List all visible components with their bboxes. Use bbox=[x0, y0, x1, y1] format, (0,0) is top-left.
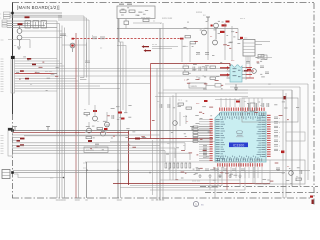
resistor R213 bbox=[210, 66, 216, 68]
wire CN401 pin1 bbox=[13, 134, 161, 136]
resistor R110 in box bbox=[120, 10, 126, 12]
wire from box pin2 down bbox=[125, 19, 127, 22]
resistor bottom R361 bbox=[169, 163, 171, 168]
wire red H138 bbox=[129, 138, 214, 140]
wire IC301 top feed3 bbox=[234, 98, 236, 107]
resistor R310 bbox=[178, 103, 184, 105]
wire CN401 pin8 bbox=[13, 152, 191, 154]
wire IC301 bottom feed7 bbox=[248, 167, 250, 178]
wire bus V6 bbox=[86, 18, 88, 78]
IC301 bottom pin numbers (red) bbox=[217, 163, 262, 166]
capacitor right C345 bbox=[274, 140, 278, 142]
wire CN401 pin7 bbox=[13, 150, 166, 152]
frame left border lower (dash-dot) bbox=[12, 114, 14, 198]
wire corner H84 bbox=[225, 83, 308, 85]
connector CN401 body bbox=[8, 128, 13, 156]
wire IC301 left feed13 bbox=[199, 146, 210, 148]
connector CN501 body bbox=[2, 170, 10, 179]
capacitor pre-IC C321 bbox=[203, 148, 207, 149]
arrow net left (dark red) bbox=[142, 45, 152, 52]
box L-MUTE bbox=[189, 83, 206, 88]
capacitor C104 bbox=[85, 61, 90, 68]
wire H141 bbox=[110, 141, 215, 143]
wire Q302 top bbox=[106, 112, 108, 122]
ground IC201 bbox=[234, 84, 238, 90]
label specks pre-IC cluster bbox=[166, 101, 213, 158]
wire IC301 top feed8 bbox=[257, 98, 259, 107]
wire ladder to IC pin5 bbox=[198, 140, 213, 142]
wire L-MUTE out bbox=[206, 85, 215, 87]
IC301 left pin ticks bbox=[216, 120, 220, 161]
power flag +9V bbox=[203, 15, 210, 21]
wire CN301 pin12 bbox=[15, 85, 100, 87]
wire audio L (dark red) bbox=[151, 63, 231, 65]
svg-text:IC3300: IC3300 bbox=[233, 143, 245, 147]
wire bus x157 bbox=[156, 68, 158, 200]
wire drop x86 bbox=[86, 162, 88, 198]
bead L302 (red) bbox=[32, 64, 36, 66]
ground bottom G3 bbox=[228, 174, 231, 177]
wire corner up x222 bbox=[221, 167, 223, 186]
wire Q301 top bbox=[94, 105, 96, 116]
IC201 inner marks bbox=[233, 68, 241, 77]
wire CN201 pin2 bbox=[255, 44, 262, 46]
wire IC301 bottom feed4 bbox=[235, 167, 237, 178]
capacitor C211 bbox=[193, 67, 195, 72]
IC301 microcontroller body bbox=[215, 112, 266, 162]
filter FL103 bbox=[41, 21, 47, 29]
wire CN301 pin9 bbox=[15, 78, 76, 80]
IC201 left pin3 bbox=[227, 74, 231, 76]
wire IC301 bottom feed1 bbox=[221, 167, 223, 178]
power flag at 15 bbox=[13, 127, 17, 131]
wire ladder to IC pin2 bbox=[198, 132, 213, 134]
arrow audio in2 (red) bbox=[220, 73, 230, 77]
wire long net H130 bbox=[13, 130, 211, 132]
label specks audio cluster bbox=[184, 62, 223, 89]
bead on H138 (red) bbox=[135, 138, 140, 140]
frame right border (dash-dot) bbox=[313, 3, 315, 205]
IC301 left pin numbers (red) bbox=[210, 119, 213, 161]
junction at frame bbox=[11, 12, 13, 14]
resistor bottom R366 bbox=[189, 163, 191, 168]
wire H187 bbox=[120, 187, 218, 189]
capacitor C111 above box bbox=[127, 3, 132, 5]
wire net H90 bbox=[163, 89, 248, 91]
bead L205 (red) bbox=[244, 70, 248, 72]
connector CN201 bbox=[243, 40, 255, 57]
resistor R112 bbox=[143, 19, 149, 22]
capacitor C202 bbox=[205, 53, 209, 55]
power flag at 48 bbox=[46, 127, 50, 131]
wire bus x152 lower bbox=[152, 140, 154, 195]
junction dots H170 bbox=[86, 170, 151, 174]
wire ladder to IC pin1 bbox=[198, 129, 213, 131]
capacitor pre-IC C322 bbox=[203, 151, 207, 152]
junction CN501 bbox=[11, 171, 14, 174]
wire CN401 pin5 bbox=[13, 144, 161, 146]
wire IC301 left feed12 bbox=[199, 144, 210, 146]
capacitor bottom C352 bbox=[214, 169, 218, 171]
wire bus x176 bbox=[175, 93, 177, 180]
bead CN401b (red) bbox=[20, 144, 24, 146]
red mark above IC bbox=[236, 101, 240, 103]
bead CN401 (red) bbox=[20, 138, 25, 140]
capacitor C502 bbox=[276, 168, 280, 170]
wire H190 bbox=[150, 189, 245, 191]
label specks center cluster bbox=[85, 106, 136, 150]
capacitor right C347 bbox=[274, 149, 278, 151]
wire bus x163 bbox=[162, 23, 164, 200]
svg-text:x: x bbox=[279, 136, 280, 138]
wire corner up x218 bbox=[217, 167, 219, 188]
IC301 right pin ticks bbox=[261, 116, 265, 157]
wire IC301 left feed19 bbox=[199, 160, 210, 162]
wire CN301 pin10 bbox=[15, 80, 79, 82]
capacitor C207 bbox=[265, 72, 269, 74]
wire CN301 pin11 bbox=[15, 83, 150, 85]
transistor Q203 bbox=[213, 40, 218, 45]
junction dot H130 bbox=[11, 129, 14, 132]
transistor Q303 bbox=[87, 128, 92, 133]
capacitor C103 bbox=[60, 34, 69, 38]
wire aux net drop bbox=[29, 40, 31, 49]
resistor bottom R364 bbox=[181, 163, 183, 168]
filter FL101 bbox=[25, 21, 31, 29]
svg-text:xxx xxx: xxx xxx bbox=[45, 71, 53, 73]
wire long H170 bbox=[13, 169, 310, 171]
capacitor C212 bbox=[199, 67, 201, 72]
wire bus x292 bbox=[291, 90, 293, 187]
wire bus x170 bbox=[169, 97, 171, 180]
transistor Q501 bbox=[289, 171, 294, 176]
wire bus V4 bbox=[64, 28, 66, 199]
wire bus V3 bbox=[61, 26, 63, 199]
wire bus H2c bbox=[58, 17, 87, 19]
capacitor C501 bbox=[300, 170, 302, 174]
resistor ladder R325 bbox=[193, 141, 198, 143]
wire drop x240 bbox=[239, 162, 241, 187]
resistor bottom R363 bbox=[177, 163, 179, 168]
wire H135 left bbox=[24, 135, 129, 137]
wire IC201 out4 (red) bbox=[246, 77, 254, 79]
resistor bottom R365 bbox=[185, 163, 187, 168]
connector CN102 bbox=[2, 20, 7, 27]
svg-text:x: x bbox=[279, 141, 280, 143]
wire bus V2 bbox=[59, 24, 61, 199]
wire Q201-Q203 bbox=[215, 29, 217, 40]
wire bus V1 bbox=[56, 21, 58, 198]
label Q202 (red) bbox=[220, 31, 225, 33]
IC301 part number highlighted bbox=[229, 143, 248, 148]
wire preIC v186 bbox=[185, 115, 187, 124]
wire audio L drop bbox=[229, 64, 231, 67]
wire CN301 pin6 bbox=[15, 70, 230, 72]
capacitor bottom C355 bbox=[241, 169, 245, 171]
wire IC301 bottom feed6 bbox=[244, 167, 246, 178]
junction right red bbox=[284, 96, 287, 99]
wire H185 bbox=[130, 185, 222, 187]
wire net v232 bbox=[231, 26, 233, 60]
wire bus V7 bbox=[88, 20, 90, 105]
red mark frame right 2 bbox=[312, 200, 314, 205]
wire CN201 down bbox=[247, 56, 249, 62]
wire CN201 pin1 bbox=[255, 41, 270, 43]
transistor Q201 bbox=[214, 23, 219, 28]
IC201 right pin6 bbox=[242, 70, 246, 72]
capacitor right C342 bbox=[274, 126, 278, 128]
wire IC301 bottom feed8 bbox=[253, 167, 255, 178]
resistor R311 bbox=[186, 107, 192, 109]
capacitor C301 bbox=[112, 115, 114, 119]
wire H162 bbox=[85, 161, 240, 163]
wire long red net H132 bbox=[13, 131, 129, 133]
wire IC301 left feed3 bbox=[199, 123, 210, 125]
transistor Q101 bbox=[17, 29, 22, 34]
label specks mid sparse bbox=[119, 105, 154, 138]
arrow audio in1 (red) bbox=[220, 66, 230, 70]
wire aux net bbox=[8, 39, 30, 41]
wire D101 to H-bus bbox=[125, 25, 127, 29]
wire bus x118 bbox=[117, 19, 119, 199]
wire IC301 left feed6 bbox=[199, 130, 210, 132]
connector CN201 row4 bbox=[243, 52, 255, 54]
wire red bus x150 bbox=[150, 64, 152, 139]
label red low bbox=[88, 140, 92, 142]
wire IC301 left feed4 bbox=[199, 125, 210, 127]
wire IC301 left feed1 bbox=[199, 119, 210, 121]
svg-text:x: x bbox=[0, 14, 1, 16]
wire bus V5 turn bbox=[80, 77, 84, 79]
ground bottom G2 bbox=[218, 174, 221, 177]
module box SW101 bbox=[117, 6, 155, 19]
wire IC301 left feed8 bbox=[199, 135, 210, 137]
box service SW bbox=[84, 147, 108, 153]
capacitor C201 bbox=[196, 53, 200, 55]
junction STANDBY left bbox=[72, 38, 75, 40]
component K201 bbox=[215, 84, 221, 88]
connector CN101 bbox=[0, 12, 10, 20]
capacitor bottom C354 bbox=[232, 169, 236, 171]
wire net AV3 bbox=[7, 25, 45, 27]
wire CN101 pin1 bbox=[10, 12, 62, 14]
wire IC301 top feed9 bbox=[261, 98, 263, 107]
IC301 logo emblem bbox=[236, 130, 244, 137]
wire corner V2 bbox=[45, 23, 60, 25]
wire Q101 collector bbox=[19, 26, 21, 29]
IC201 right pin7 bbox=[242, 74, 246, 76]
red mark preIC top bbox=[204, 100, 208, 102]
resistor ladder R323 bbox=[193, 135, 198, 137]
wire CN301 pin8 bbox=[15, 75, 230, 77]
resistor R302 bbox=[97, 128, 103, 130]
resistor ladder R324 bbox=[193, 138, 198, 140]
filter FL101 mark bbox=[27, 22, 29, 27]
resistor R203 bbox=[258, 55, 264, 57]
wire corner V1 bbox=[45, 20, 57, 22]
component box XT201 bbox=[261, 55, 267, 60]
wire IC301 left feed2 bbox=[199, 121, 210, 123]
wire IC301 left feed5 bbox=[199, 128, 210, 130]
power flag at 192 bbox=[190, 127, 194, 131]
wire bus x76 (red) bbox=[75, 33, 77, 198]
wire IC301 top feed1 bbox=[225, 98, 227, 107]
resistor R214 bbox=[210, 77, 216, 79]
svg-text:x: x bbox=[0, 18, 1, 20]
IC301 top pin ticks bbox=[220, 113, 264, 116]
ground bottom G4 bbox=[238, 174, 241, 177]
transistor Q302 bbox=[105, 122, 110, 127]
transistor Q202 bbox=[202, 30, 207, 35]
svg-text:xxxx xxx: xxxx xxx bbox=[192, 181, 201, 183]
bead CN401d (red) bbox=[17, 146, 20, 148]
resistor R501 bbox=[296, 178, 302, 180]
svg-text:x: x bbox=[279, 123, 280, 125]
resistor ladder R322 bbox=[193, 132, 198, 134]
wire CN201 drop x250 bbox=[249, 56, 251, 78]
wire net v225 bbox=[224, 23, 226, 60]
resistor R212 bbox=[183, 72, 189, 74]
capacitor right C346 bbox=[274, 145, 278, 147]
wire CN401 pin1 drop bbox=[159, 135, 161, 160]
svg-text:xxxxx: xxxxx bbox=[196, 11, 203, 14]
wire CN301 pin13 bbox=[15, 88, 120, 90]
bead L301 (red) bbox=[27, 58, 31, 60]
wire jog x126 bbox=[117, 46, 126, 114]
wire CN301 pin7 bbox=[15, 73, 57, 75]
wire bus x160 bbox=[159, 29, 161, 201]
wire jog x123 bbox=[119, 42, 123, 110]
wire drop x270 bbox=[269, 160, 271, 184]
wire IC301 bottom feed5 bbox=[239, 167, 241, 178]
IC201 audio amplifier body bbox=[230, 65, 242, 82]
resistor bottom R362 bbox=[173, 163, 175, 168]
wire net AV1 bbox=[7, 20, 45, 22]
svg-text:xxxx xxxx: xxxx xxxx bbox=[141, 17, 151, 19]
wire H180 bbox=[160, 179, 240, 181]
label specks bottom-right cluster bbox=[263, 163, 300, 185]
resistor R111 in box bbox=[129, 10, 135, 12]
wire CN301 pin1 bbox=[15, 58, 57, 60]
wire CN401 pin4 bbox=[13, 142, 186, 144]
capacitor right C340 bbox=[274, 117, 278, 119]
wire STANDBY (red dashed) bbox=[73, 38, 183, 40]
wire CN401 pin6 bbox=[13, 147, 176, 149]
label specks bottom row cluster bbox=[168, 167, 237, 181]
arrow STANDBY right bbox=[180, 38, 184, 40]
wire H45 bbox=[62, 44, 87, 46]
capacitor C302 bbox=[95, 143, 99, 145]
wire Q303 top bbox=[88, 122, 90, 128]
wire net H23 bbox=[133, 22, 162, 24]
wire drop x215 bbox=[214, 167, 216, 198]
wire Q102 to ground bbox=[19, 40, 21, 46]
connector CN201 row3 bbox=[243, 48, 255, 50]
IC201 left pin2 bbox=[227, 70, 231, 72]
wire CN401 pin6 drop bbox=[174, 148, 176, 158]
wire IC301 left feed10 bbox=[199, 139, 210, 141]
wire bus x78 bbox=[78, 40, 80, 199]
crystal X301 bbox=[249, 103, 257, 111]
wire bus x286 bbox=[285, 93, 287, 198]
svg-text:[MAIN BOARD(1/2)]: [MAIN BOARD(1/2)] bbox=[17, 5, 60, 10]
IC301 bottom pin ticks bbox=[218, 158, 262, 161]
wire CN301 pin5 bbox=[15, 68, 230, 70]
wire bus x173 bbox=[172, 95, 174, 180]
wire Q103 emitter bbox=[72, 49, 74, 53]
resistor R303 bbox=[86, 137, 92, 139]
svg-text:c: c bbox=[85, 66, 86, 68]
connector CN201 row2 bbox=[243, 45, 255, 47]
wire H46 bbox=[152, 46, 178, 48]
wire Q101 emitter to bus bbox=[22, 30, 62, 32]
wire net v190 bbox=[189, 44, 191, 62]
IC301 top pin numbers (red) bbox=[219, 108, 264, 111]
ground Q102 bbox=[17, 47, 21, 49]
wire bus V5 bbox=[83, 16, 85, 78]
wire red H183 bbox=[113, 183, 270, 185]
svg-text:x: x bbox=[279, 132, 280, 134]
ground bottom G1 bbox=[208, 174, 211, 177]
wire CN301 pin14 bbox=[15, 90, 57, 92]
wire IC301 left feed17 bbox=[199, 155, 210, 157]
wire IC301 bottom feed9 bbox=[257, 167, 259, 178]
wire IC301 left feed14 bbox=[199, 148, 210, 150]
capacitor pre-IC C324 bbox=[203, 156, 207, 157]
ferrite bead L102 (red) bbox=[18, 23, 23, 25]
transistor Q305 bbox=[173, 121, 178, 126]
capacitor C112 bbox=[92, 35, 97, 39]
bead L304 (dark red) bbox=[20, 70, 24, 72]
wire drop x262 bbox=[261, 167, 263, 184]
bead CN401c (red) bbox=[17, 140, 21, 142]
wire ladder to IC pin3 bbox=[198, 135, 213, 137]
capacitor pre-IC C320 bbox=[203, 146, 207, 147]
capacitor C110 above box bbox=[119, 3, 124, 5]
wire IC301 top feed6 bbox=[248, 98, 250, 107]
svg-text:xxx: xxx bbox=[1, 40, 4, 42]
wire bus x300 bbox=[299, 87, 301, 187]
wire CN301 red net bbox=[15, 73, 57, 75]
wire net v238 bbox=[237, 29, 239, 41]
box oscillator region bbox=[242, 98, 298, 122]
box right small bbox=[286, 132, 305, 141]
wire red drop x227 bbox=[226, 165, 228, 190]
label specks box SW101 contents bbox=[121, 7, 148, 16]
wire bus x308 bbox=[307, 84, 309, 180]
label specks CN301 rows labels bbox=[16, 57, 59, 91]
wire IC301 top feed7 bbox=[253, 98, 255, 107]
label specks oscillator cluster bbox=[247, 102, 299, 121]
arrow into CN201 bbox=[240, 37, 243, 39]
diode D101 bbox=[124, 21, 129, 25]
shield box dash-dot H186 bbox=[200, 186, 318, 188]
resistor ladder R321 bbox=[193, 129, 198, 131]
filter FL102 bbox=[33, 21, 39, 29]
wire net AV2 bbox=[7, 23, 30, 25]
wire long net H28 bbox=[117, 28, 238, 30]
wire Q102 emitter to bus bbox=[22, 37, 62, 39]
capacitor right C341 bbox=[274, 122, 278, 124]
wire corner H87 bbox=[230, 86, 300, 88]
transistor Q103 bbox=[70, 43, 75, 48]
red mark frame right bbox=[310, 196, 313, 198]
wire IC301 top feed5 bbox=[243, 98, 245, 107]
capacitor C330 bbox=[262, 103, 264, 107]
box audio out region bbox=[255, 160, 305, 184]
label Q201 (red) bbox=[222, 24, 227, 26]
wire CN401 pin2 bbox=[13, 137, 21, 139]
